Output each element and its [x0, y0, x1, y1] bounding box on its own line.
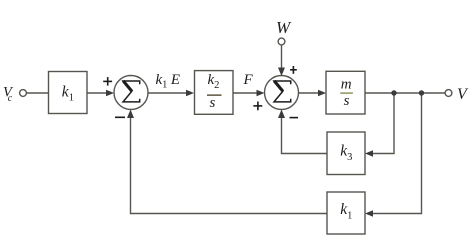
- node Vc input terminal: [20, 90, 27, 97]
- sign - at summer2 bottom-right: [290, 117, 299, 119]
- block k3: [327, 132, 365, 175]
- wire k3 to summer2 bottom: [282, 114, 328, 154]
- fraction bar m/s: [340, 92, 353, 94]
- block k1 (top): [49, 72, 88, 114]
- svg-text:c: c: [8, 93, 13, 104]
- node W input terminal: [278, 38, 285, 45]
- junction node A: [391, 90, 396, 95]
- arrowhead into summer2: [257, 90, 265, 96]
- arrowhead k1 into summer1 bottom: [127, 110, 134, 119]
- fraction bar k2/s: [207, 94, 222, 96]
- svg-text:k2: k2: [208, 72, 220, 91]
- summing junction S2: [265, 76, 299, 110]
- svg-text:s: s: [344, 93, 350, 109]
- wire W to summer2: [281, 45, 283, 72]
- arrowhead into k3: [365, 150, 373, 156]
- arrowhead W into summer2 top: [278, 68, 285, 77]
- svg-text:W: W: [276, 18, 292, 37]
- arrowhead into m/s: [318, 90, 326, 96]
- wire node A down to k3: [370, 93, 395, 154]
- sign + at summer2 left-bottom: [253, 102, 262, 111]
- block m/s: [326, 71, 365, 114]
- node output terminal V: [445, 90, 452, 97]
- wire Vc to k1: [27, 92, 49, 94]
- arrowhead k3 into summer2 bottom: [278, 110, 285, 119]
- wire summer2 to m/s: [299, 92, 323, 94]
- wire k2/s to summer2: [233, 92, 260, 94]
- svg-text:k3: k3: [340, 143, 352, 163]
- block k2/s: [195, 71, 234, 115]
- arrowhead into k2/s: [186, 90, 194, 96]
- wire m/s to output terminal: [365, 92, 445, 94]
- arrowhead into summer1: [106, 90, 114, 96]
- wire k1 to summer1: [87, 92, 110, 94]
- sign - at summer1 bottom: [115, 117, 125, 119]
- block k1 (bottom): [327, 192, 365, 234]
- sign + at summer2 top-right: [290, 66, 297, 74]
- svg-text:k1E: k1E: [156, 72, 181, 91]
- junction node B: [419, 90, 424, 95]
- wire k1 bottom to summer1 bottom: [131, 114, 328, 214]
- wire node B down to k1 bottom: [370, 93, 422, 214]
- sign + at summer1 left: [103, 77, 112, 86]
- svg-text:s: s: [210, 95, 216, 111]
- svg-text:k1: k1: [340, 201, 352, 221]
- symbol sigma S1: [123, 81, 140, 102]
- wire summer1 to k2/s: [148, 92, 190, 94]
- summing junction S1: [114, 76, 148, 110]
- symbol sigma S2: [274, 81, 291, 102]
- svg-text:F: F: [243, 72, 254, 88]
- svg-text:m: m: [341, 77, 352, 93]
- svg-text:V: V: [457, 86, 469, 103]
- arrowhead into k1 bottom: [365, 210, 373, 216]
- svg-text:k1: k1: [62, 83, 74, 103]
